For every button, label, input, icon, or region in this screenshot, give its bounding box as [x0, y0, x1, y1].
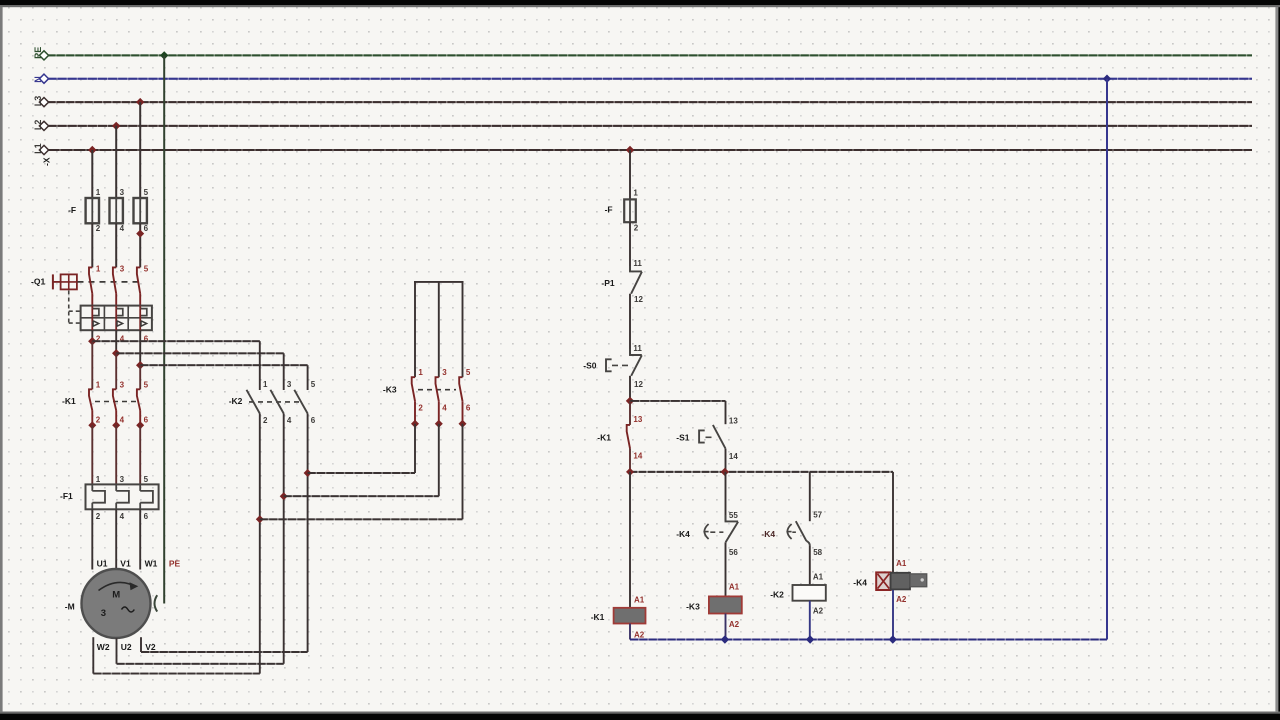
svg-text:1: 1	[96, 475, 101, 484]
svg-text:-K4: -K4	[761, 529, 775, 539]
fuse -F element 1	[91, 198, 93, 223]
wire -K1 out 1	[91, 425, 93, 484]
contactor -K1 contact 2	[113, 389, 116, 410]
contact -P1	[630, 266, 642, 271]
svg-text:3: 3	[101, 608, 106, 619]
svg-text:A2: A2	[896, 595, 907, 604]
pushbutton -S0	[630, 349, 642, 355]
wire fuse3 out	[139, 223, 141, 267]
wire phase2 to -K2	[116, 352, 284, 354]
node -K3 pin 4	[435, 420, 443, 428]
svg-text:U1: U1	[97, 559, 108, 569]
svg-text:4: 4	[120, 416, 125, 425]
svg-text:-X: -X	[42, 157, 52, 166]
breaker -Q1 pole 1	[89, 267, 92, 293]
node -K3 pin 2	[411, 420, 419, 428]
contactor -K2 link	[249, 401, 301, 403]
wire N return bottom	[630, 639, 1107, 641]
motor -M rotation arrow	[99, 582, 134, 590]
wire N return riser	[1106, 79, 1108, 640]
wire phase1 to -K1	[91, 341, 93, 389]
svg-text:A2: A2	[634, 631, 645, 640]
wire -K2 coil to N	[809, 601, 811, 640]
contactor -K3 star bridge	[414, 281, 464, 283]
svg-text:2: 2	[96, 512, 101, 521]
svg-text:-K4: -K4	[676, 529, 690, 539]
wire N rail	[48, 78, 1253, 80]
node PE tap	[160, 51, 168, 59]
breaker -Q1 mechanical link	[78, 281, 141, 283]
breaker -Q1 pole 2	[113, 267, 116, 293]
overload -F1 heater 1	[91, 484, 93, 491]
node N terminal	[39, 74, 48, 83]
wire -K3 top 2	[438, 282, 440, 377]
node -S1 out	[721, 468, 729, 476]
svg-text:5: 5	[144, 265, 149, 274]
svg-text:6: 6	[144, 512, 149, 521]
svg-text:-S1: -S1	[676, 432, 690, 442]
svg-text:5: 5	[144, 475, 149, 484]
svg-text:11: 11	[633, 344, 642, 353]
svg-text:2: 2	[96, 416, 101, 425]
wire to -K4 NC	[725, 472, 727, 521]
wire control bus	[630, 471, 893, 473]
wire -K2 pole2 down	[283, 414, 285, 664]
wire -K3 pole2 down	[438, 424, 440, 497]
timer -K4 coil body	[891, 573, 910, 590]
node L2 tap	[112, 122, 120, 130]
svg-text:3: 3	[120, 380, 125, 389]
motor -M body	[82, 569, 151, 638]
svg-text:-K3: -K3	[383, 384, 397, 394]
wire phase3 to -K1	[139, 365, 141, 389]
wire delta link 3	[260, 518, 463, 520]
svg-text:14: 14	[729, 452, 738, 461]
motor -M ac squiggle	[122, 607, 135, 612]
wire V2 return	[140, 637, 142, 652]
contactor -K1 contact 1	[89, 389, 92, 410]
svg-text:2: 2	[634, 224, 639, 233]
overload -F1 heater 2	[115, 484, 117, 491]
svg-text:1: 1	[96, 265, 101, 274]
svg-text:-K4: -K4	[853, 577, 867, 587]
svg-text:13: 13	[633, 415, 642, 424]
svg-text:M: M	[112, 590, 120, 601]
node delta U2	[280, 492, 288, 500]
contactor -K2 contact 1	[247, 390, 260, 414]
node phase1 split	[88, 337, 96, 345]
wire -Q1 pole 3 out	[139, 330, 141, 365]
timer arc -K4 NC	[704, 524, 708, 539]
svg-text:4: 4	[120, 224, 125, 233]
svg-text:-Q1: -Q1	[31, 277, 45, 287]
svg-text:-S0: -S0	[583, 361, 597, 371]
svg-text:57: 57	[813, 510, 822, 519]
svg-text:A1: A1	[813, 572, 824, 581]
wire -K4 NO to -K2 coil	[809, 546, 811, 585]
wire L1 rail	[48, 149, 1253, 151]
wire -K3 pole3 down	[462, 424, 464, 520]
svg-text:L3: L3	[33, 96, 43, 107]
node delta W2	[256, 515, 264, 523]
breaker -Q1 magnetic element 2	[117, 321, 123, 326]
svg-text:A1: A1	[896, 559, 907, 568]
wire -F1 out 2	[115, 509, 117, 569]
wire W2 return	[92, 637, 94, 673]
svg-text:4: 4	[442, 404, 447, 413]
breaker -Q1 thermal element 1	[91, 306, 93, 309]
node delta V2	[304, 469, 312, 477]
breaker -Q1 thermal element 3	[139, 306, 141, 309]
svg-text:3: 3	[120, 188, 125, 197]
svg-text:1: 1	[263, 380, 268, 389]
svg-text:PE: PE	[169, 559, 181, 569]
svg-text:-K3: -K3	[686, 601, 700, 611]
pushbutton -S1	[713, 425, 726, 449]
svg-text:55: 55	[729, 511, 738, 520]
contactor -K3 link	[418, 389, 456, 391]
wire delta link 2	[284, 495, 439, 497]
wire -Q1 pole 1 out	[91, 330, 93, 341]
contact -K4 timed NO	[796, 521, 807, 541]
svg-text:2: 2	[263, 416, 268, 425]
node seal-in branch	[626, 397, 634, 405]
svg-text:3: 3	[120, 475, 125, 484]
wire L2 drop	[115, 126, 117, 198]
wire -K3 top 3	[462, 282, 464, 377]
svg-text:V1: V1	[120, 559, 131, 569]
svg-text:W2: W2	[97, 642, 110, 652]
svg-text:5: 5	[466, 368, 471, 377]
svg-text:4: 4	[120, 512, 125, 521]
wire phase2 to -K1	[115, 353, 117, 389]
svg-text:A2: A2	[813, 607, 824, 616]
coil -K3	[709, 596, 742, 613]
wire -P1 to -S0	[629, 294, 631, 355]
svg-text:-F1: -F1	[60, 491, 73, 501]
wire -K2 pole1 down	[259, 414, 261, 674]
wire L3 rail	[48, 101, 1253, 103]
svg-text:-P1: -P1	[601, 278, 615, 288]
node PE terminal	[39, 51, 48, 60]
svg-text:2: 2	[418, 404, 423, 413]
node fuse3 junction	[136, 230, 144, 238]
contactor -K2 contact 3	[294, 390, 307, 414]
wire -F1 out 3	[139, 509, 141, 569]
contactor -K1 contact 3	[137, 389, 140, 410]
svg-text:13: 13	[729, 416, 738, 425]
node L3 tap	[136, 98, 144, 106]
svg-text:1: 1	[96, 188, 101, 197]
node N return tap	[1103, 75, 1111, 83]
contact -K4 timed NC	[726, 515, 739, 521]
svg-text:3: 3	[442, 368, 447, 377]
node L3 terminal	[39, 98, 48, 107]
wire -K1 out 3	[139, 425, 141, 484]
node -K1 coil feed	[626, 468, 634, 476]
svg-text:-K1: -K1	[591, 612, 605, 622]
wire -F1 out 1	[91, 509, 93, 569]
fuse -F element 3	[139, 198, 141, 223]
node L1 control tap	[626, 146, 634, 154]
svg-text:58: 58	[813, 548, 822, 557]
breaker -Q1 trip unit box	[81, 306, 152, 331]
svg-text:A2: A2	[729, 620, 740, 629]
svg-text:-K2: -K2	[770, 589, 784, 599]
wire L3 drop	[139, 102, 141, 198]
svg-text:11: 11	[633, 259, 642, 268]
svg-text:-K2: -K2	[229, 396, 243, 406]
wire PE drop	[163, 55, 165, 603]
breaker -Q1 trip linkage	[68, 291, 70, 325]
coil -K2	[793, 585, 826, 601]
wire L2 rail	[48, 125, 1253, 127]
wire fuse2 out	[115, 223, 117, 267]
svg-text:3: 3	[287, 380, 292, 389]
svg-text:W1: W1	[145, 559, 158, 569]
breaker -Q1 actuator	[52, 274, 54, 289]
svg-text:2: 2	[96, 224, 101, 233]
svg-text:L2: L2	[33, 120, 43, 131]
wire -K1 coil to N	[629, 624, 631, 640]
svg-text:6: 6	[311, 416, 316, 425]
svg-text:14: 14	[633, 452, 642, 461]
wire -K3 coil to N	[725, 614, 727, 640]
node L1 tap	[88, 146, 96, 154]
wire control feed	[629, 150, 631, 199]
svg-text:3: 3	[120, 265, 125, 274]
node -K1 pin 6	[136, 421, 144, 429]
breaker -Q1 magnetic element 1	[93, 321, 99, 326]
node -K3 pin 6	[459, 420, 467, 428]
wire to -K4 NO	[809, 472, 811, 521]
svg-text:N: N	[33, 76, 43, 83]
node -K3 A2	[721, 635, 729, 643]
overload -F1 heater 3	[139, 484, 141, 491]
wire -K2 pole3 down	[307, 414, 309, 653]
timer -K4 function box	[876, 572, 890, 590]
wire PE rail	[48, 54, 1253, 56]
svg-text:12: 12	[634, 380, 643, 389]
node -K1 pin 2	[88, 421, 96, 429]
wire -K1 out 2	[115, 425, 117, 484]
wire to -K1 coil	[629, 472, 631, 608]
svg-text:-K1: -K1	[62, 396, 76, 406]
wire -K3 top 1	[414, 282, 416, 377]
wire -K4 NC to -K3 coil	[725, 542, 727, 596]
node phase2 split	[112, 349, 120, 357]
svg-text:-M: -M	[65, 602, 75, 612]
breaker -Q1 thermal element 2	[115, 306, 117, 309]
svg-text:-K1: -K1	[597, 432, 611, 442]
wire delta link 1	[308, 472, 415, 474]
fuse -F element 2	[115, 198, 117, 223]
svg-text:12: 12	[634, 295, 643, 304]
wire U2 return	[116, 638, 118, 664]
svg-text:5: 5	[144, 380, 149, 389]
node -K2 A2	[806, 635, 814, 643]
contactor -K2 contact 2	[270, 390, 283, 414]
contactor -K1 link	[95, 401, 137, 403]
wire -K3 pole1 down	[414, 424, 416, 473]
wire L1 drop	[91, 150, 93, 198]
svg-text:1: 1	[418, 368, 423, 377]
wire phase1 to -K2	[92, 340, 259, 342]
coil -K1	[614, 608, 646, 624]
svg-text:1: 1	[633, 189, 638, 198]
wire -S0 out	[629, 376, 631, 401]
svg-text:L1: L1	[33, 143, 43, 154]
svg-text:PE: PE	[33, 47, 43, 59]
timer arc -K4 NO	[787, 524, 791, 539]
svg-text:5: 5	[311, 380, 316, 389]
svg-text:1: 1	[96, 380, 101, 389]
svg-text:V2: V2	[145, 642, 156, 652]
contact -K1 aux	[629, 401, 631, 425]
node -K1 pin 4	[112, 421, 120, 429]
svg-text:A1: A1	[634, 595, 645, 604]
svg-text:4: 4	[287, 416, 292, 425]
node -K4 A2	[889, 635, 897, 643]
svg-text:6: 6	[466, 404, 471, 413]
wire branch to -S1	[630, 400, 726, 402]
overload -F1 box	[86, 484, 159, 509]
svg-text:-F: -F	[605, 205, 613, 215]
wire -Q1 pole 2 out	[115, 330, 117, 353]
contactor -K3 contact 1	[412, 377, 415, 401]
breaker -Q1 magnetic element 3	[141, 321, 147, 326]
node phase3 split	[136, 361, 144, 369]
wire phase3 to -K2	[140, 364, 307, 366]
contactor -K3 contact 2	[436, 377, 439, 401]
svg-text:56: 56	[729, 548, 738, 557]
wire fuse1 out	[91, 223, 93, 267]
node L2 terminal	[39, 121, 48, 130]
svg-text:U2: U2	[121, 642, 132, 652]
wire -K4 coil to N	[892, 590, 894, 640]
svg-text:-F: -F	[68, 205, 76, 215]
svg-text:5: 5	[144, 188, 149, 197]
node L1 terminal	[39, 145, 48, 154]
svg-text:6: 6	[144, 416, 149, 425]
breaker -Q1 pole 3	[137, 267, 140, 293]
wire fuse to -P1	[629, 222, 631, 271]
contactor -K3 contact 3	[459, 377, 462, 401]
motor -M earth arc	[155, 595, 158, 611]
svg-text:A1: A1	[729, 582, 740, 591]
svg-text:6: 6	[144, 224, 149, 233]
fuse -F control	[629, 199, 631, 222]
